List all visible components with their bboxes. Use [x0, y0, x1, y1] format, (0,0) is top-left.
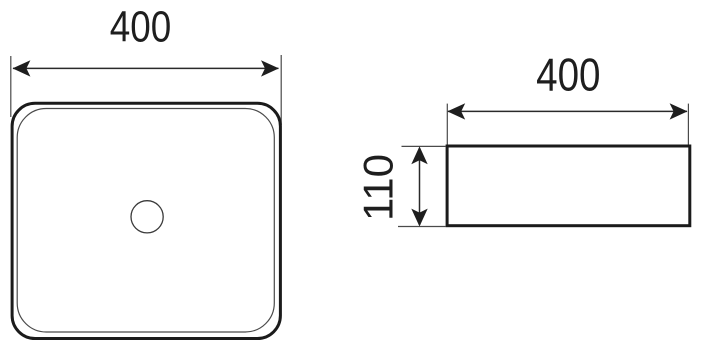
basin inner rim: [17, 109, 274, 333]
arrow left (side view): [447, 103, 465, 119]
dimension line 400 (top view): [13, 67, 279, 69]
basin body (side): [447, 146, 690, 226]
svg-text:400: 400: [536, 49, 600, 101]
svg-text:110: 110: [354, 154, 401, 221]
extension line right: [280, 55, 282, 125]
svg-text:400: 400: [110, 1, 171, 51]
extension line right (side view top dim): [687, 104, 689, 145]
extension line bottom (height dim): [398, 226, 446, 228]
dimension line 400 (side view): [448, 110, 687, 112]
basin outer rim: [12, 103, 280, 338]
arrow right: [261, 60, 279, 76]
extension line top (height dim): [402, 145, 446, 147]
arrow right (side view): [670, 103, 688, 119]
extension line left (side view top dim): [446, 104, 448, 145]
dimension line 110: [419, 148, 421, 225]
arrow down: [411, 209, 427, 227]
drain hole: [131, 201, 163, 233]
extension line left: [10, 56, 12, 117]
arrow left: [13, 60, 31, 76]
arrow up: [411, 146, 427, 164]
